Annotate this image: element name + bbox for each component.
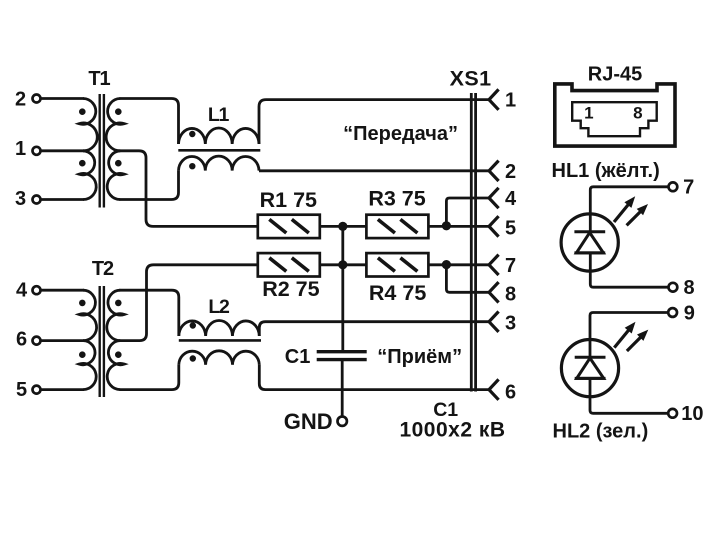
L2 lower winding [179,351,259,365]
wire branch to XS1 pin8 [446,265,489,293]
svg-text:3: 3 [505,313,516,335]
svg-text:C1: C1 [285,346,311,368]
svg-text:XS1: XS1 [450,67,492,91]
wire T2 bottom to L2 [119,365,178,390]
T2 pin 4 terminal [33,286,41,294]
svg-text:7: 7 [683,177,694,199]
wire T1 center tap to R1 [119,151,258,227]
T2 primary winding lower [79,341,96,390]
T1 pin 1 terminal [33,147,41,155]
svg-text:“Приём”: “Приём” [377,346,462,368]
svg-text:4: 4 [505,188,517,210]
RJ-45 cavity [572,102,657,136]
T1 pin 2 terminal [33,95,41,103]
wire branch to XS1 pin4 [446,198,489,226]
L1 upper winding [179,128,260,144]
L1 upper right lead to XS1 pin1 [259,100,489,144]
svg-text:R1 75: R1 75 [260,188,317,212]
T1 core [98,94,100,208]
wire T2 pin5 [40,388,84,391]
L2 core [179,339,261,342]
svg-text:8: 8 [633,104,642,123]
XS1 pin 6 [489,379,499,389]
wire HL2 top [590,313,669,358]
T2 primary winding upper [79,290,97,340]
svg-text:HL1 (жёлт.): HL1 (жёлт.) [552,160,660,182]
T2 pin 6 terminal [33,337,41,345]
svg-text:8: 8 [505,283,516,305]
T1 secondary winding lower [107,151,124,200]
LED HL2 circle [561,340,618,397]
L1 polarity dots [189,131,195,137]
HL1 terminal 7 [669,182,678,191]
svg-text:T2: T2 [92,258,114,280]
HL1 diode triangle [576,233,603,253]
T2 core [98,286,100,397]
capacitor C1 plates [317,350,367,353]
wire HL2 bottom [590,378,669,413]
T1 primary winding upper [79,99,97,151]
svg-text:5: 5 [16,379,27,401]
wire HL1 top [590,187,669,232]
svg-text:8: 8 [683,277,694,299]
node junction at pin5 [442,221,451,230]
wire T1 bottom to L1 [119,171,178,200]
T2 secondary winding upper [107,290,125,340]
XS1 pin 1 [489,89,499,99]
wire R1 to R3 [320,225,367,228]
HL2 terminal 9 [668,308,677,317]
svg-text:T1: T1 [88,68,110,90]
XS1 pin 3 [489,312,499,322]
wire T2 pin6 [40,339,84,342]
L2 upper right lead to XS1 pin3 [259,322,489,336]
node junction R2-R4 [338,260,347,269]
svg-text:5: 5 [505,217,516,239]
XS1 pin 4 [489,188,499,198]
wire center column to C1 [341,226,344,352]
svg-text:R4 75: R4 75 [369,281,426,305]
wire T1 pin3 [40,198,84,201]
T2 pin 5 terminal [33,386,41,394]
HL2 light arrows [614,329,629,347]
node junction R1-R3 [338,222,347,231]
resistor R2 [258,253,320,276]
wire HL1 bottom [590,253,669,287]
svg-text:2: 2 [505,161,516,183]
svg-text:L1: L1 [208,104,230,126]
node junction at pin7 [442,260,451,269]
svg-text:1: 1 [505,90,516,112]
HL1 diode cathode bar [574,230,605,233]
resistor R1 [258,215,320,238]
svg-text:7: 7 [505,255,516,277]
resistor R3 [366,215,428,238]
wire C1 bottom to GND [341,360,344,417]
svg-text:3: 3 [15,188,26,210]
wire R3 to XS1 pin5 [428,225,489,228]
svg-text:“Передача”: “Передача” [343,123,458,145]
LED HL1 circle [561,214,618,271]
svg-text:L2: L2 [208,296,230,318]
svg-text:RJ-45: RJ-45 [588,64,642,86]
T1 pin 3 terminal [33,196,41,204]
wire T2 pin4 [40,289,84,292]
connector XS1 lines [470,93,473,392]
wire T1 pin2 [40,97,84,100]
L1 core [178,149,260,152]
XS1 pin 5 [489,216,499,226]
HL1 terminal 8 [669,283,678,292]
wire T1 top to L1 [119,99,178,145]
svg-text:1000x2 кВ: 1000x2 кВ [399,419,505,442]
HL2 terminal 10 [668,409,677,418]
wire T1 pin1 [40,149,84,152]
resistor R4 [366,253,428,276]
svg-text:2: 2 [15,89,26,111]
wire T2 top to L2 [119,290,178,336]
svg-text:GND: GND [284,409,333,434]
RJ-45 jack outline [555,84,675,146]
svg-text:1: 1 [15,138,26,160]
wire R4 to XS1 pin7 [428,263,489,266]
L2 polarity dots [190,322,196,328]
svg-text:10: 10 [681,403,703,425]
L2 lower right lead to XS1 pin6 [259,365,489,390]
svg-text:HL2 (зел.): HL2 (зел.) [553,421,649,443]
HL2 diode triangle [577,358,604,378]
T1 secondary winding upper [106,99,124,151]
ground GND terminal [338,417,347,426]
svg-text:4: 4 [16,280,28,302]
XS1 pin 7 [489,255,499,265]
svg-text:9: 9 [684,303,695,325]
T2 secondary winding lower [107,341,124,390]
wire T2 center tap to R2 [119,265,258,341]
HL2 diode cathode bar [575,356,606,359]
svg-text:R2 75: R2 75 [262,277,319,301]
XS1 pin 2 [489,161,499,171]
L1 lower right lead to XS1 pin2 [259,169,489,172]
T1 polarity dots [79,108,86,115]
XS1 pin 8 [489,282,499,292]
L1 lower winding [179,156,260,171]
wire R2 to R4 [320,263,367,266]
L2 upper winding [179,320,259,336]
svg-text:6: 6 [505,382,516,404]
svg-text:R3 75: R3 75 [368,187,425,211]
T2 polarity dots [79,300,86,307]
svg-text:6: 6 [16,329,27,351]
T1 primary winding lower [79,151,96,200]
svg-text:1: 1 [584,104,593,123]
HL1 light arrows [614,204,629,222]
